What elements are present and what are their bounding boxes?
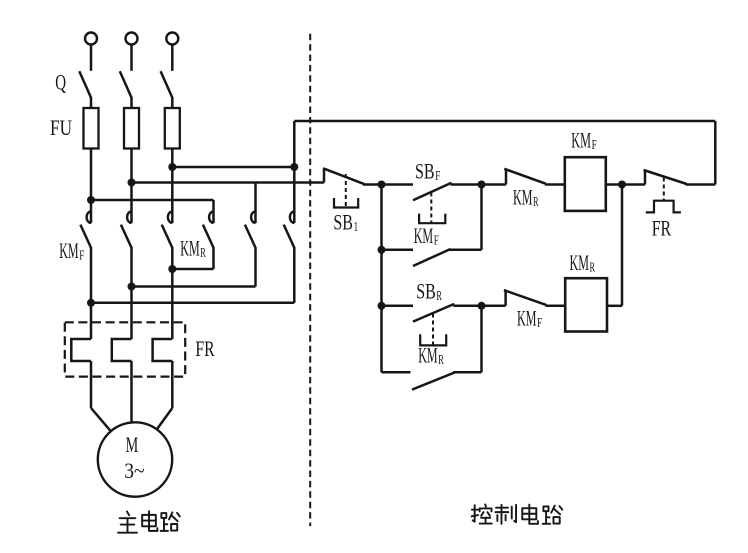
svg-text:F: F [434,233,439,248]
svg-text:R: R [200,245,206,260]
svg-text:KM: KM [513,185,532,210]
svg-text:KM: KM [570,250,589,275]
svg-text:KM: KM [59,238,78,263]
svg-text:FR: FR [195,336,215,361]
svg-text:KM: KM [414,223,433,248]
svg-text:FU: FU [50,115,72,140]
svg-text:F: F [435,168,440,183]
svg-text:R: R [436,288,442,303]
svg-text:F: F [592,137,598,152]
svg-text:KM: KM [180,236,199,261]
svg-text:M: M [126,432,139,457]
svg-text:FR: FR [652,216,672,241]
svg-text:F: F [79,248,84,263]
svg-text:KM: KM [517,306,536,331]
svg-text:SB: SB [416,279,436,304]
svg-text:3~: 3~ [124,458,144,483]
svg-text:R: R [590,260,596,275]
svg-text:SB: SB [333,209,353,234]
svg-text:R: R [533,194,539,209]
svg-text:KM: KM [571,128,591,153]
svg-text:F: F [537,315,542,330]
svg-text:KM: KM [418,343,437,368]
svg-text:R: R [438,352,444,367]
svg-text:Q: Q [55,69,66,94]
svg-text:1: 1 [354,219,359,234]
svg-text:SB: SB [415,159,435,184]
